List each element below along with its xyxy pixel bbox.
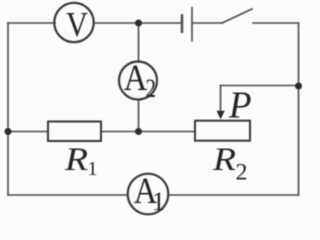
svg-text:R: R bbox=[212, 142, 236, 178]
ammeter A1 circle bbox=[128, 174, 169, 215]
wire middle rail left bbox=[8, 131, 48, 133]
wire top segment V to junction and battery bbox=[94, 22, 182, 24]
junction node right wiper bbox=[295, 83, 302, 90]
svg-text:V: V bbox=[66, 5, 88, 44]
junction node rail A2 bottom bbox=[135, 128, 142, 135]
wire switch to top right corner bbox=[253, 22, 299, 24]
svg-text:1: 1 bbox=[152, 187, 165, 216]
wiper arrow stem of rheostat bbox=[220, 86, 222, 113]
wire bottom right bbox=[169, 194, 299, 196]
svg-text:A: A bbox=[124, 58, 148, 99]
battery B1 short plate bbox=[181, 15, 183, 31]
svg-text:2: 2 bbox=[146, 74, 157, 103]
battery B1 long plate bbox=[191, 8, 193, 41]
svg-text:P: P bbox=[228, 84, 252, 126]
resistor R1 body bbox=[48, 122, 101, 142]
junction node left rail bbox=[5, 128, 12, 135]
ammeter A2 circle bbox=[119, 62, 157, 100]
wire A2 branch lower bbox=[138, 100, 140, 132]
wire right vertical bbox=[298, 23, 300, 195]
svg-text:R: R bbox=[64, 142, 88, 178]
voltmeter V circle bbox=[54, 3, 93, 42]
wire middle rail center bbox=[101, 131, 195, 133]
resistor R2 body (rheostat track) bbox=[195, 121, 250, 141]
junction node top (A2 top) bbox=[135, 20, 142, 27]
wire bottom left bbox=[8, 194, 128, 196]
wire battery to switch bbox=[192, 22, 222, 24]
wire top segment left bbox=[8, 22, 55, 24]
switch K blade bbox=[222, 9, 252, 23]
wire left vertical bbox=[7, 23, 9, 195]
svg-text:2: 2 bbox=[236, 160, 248, 185]
wiper arrowhead bbox=[217, 111, 225, 120]
wire A2 branch upper bbox=[138, 23, 140, 62]
svg-text:1: 1 bbox=[88, 158, 98, 180]
wire wiper horizontal bbox=[221, 85, 299, 87]
